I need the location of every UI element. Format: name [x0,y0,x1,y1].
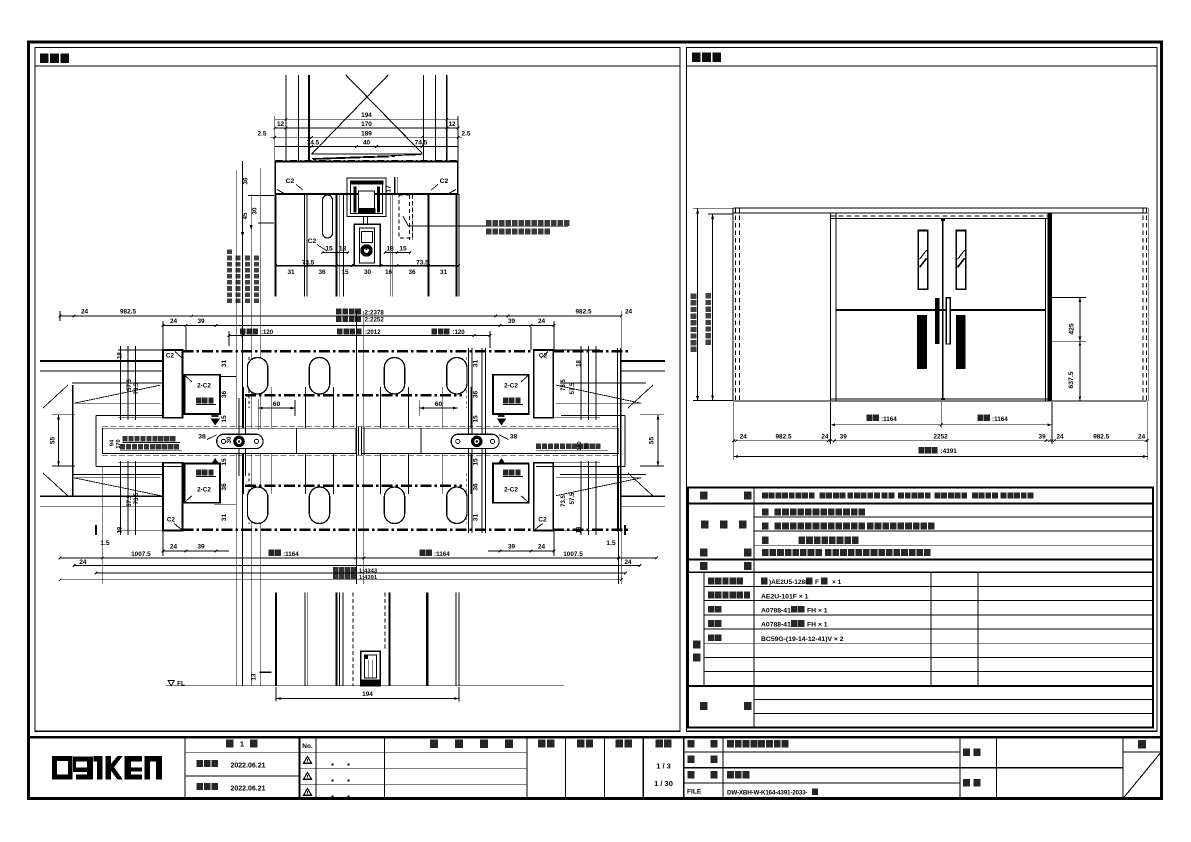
svg-text:18: 18 [576,526,582,533]
left pane frame [35,48,680,732]
rotated height labels 2033/1952/1954 [227,250,259,303]
svg-text:17: 17 [386,185,393,193]
55 dims vertical [50,415,665,466]
roller hanger bracket verticals [244,387,471,494]
finish rows text [762,508,935,544]
svg-text:38: 38 [510,434,518,441]
front left height dims [691,208,734,401]
extra cut verticals left [239,398,246,476]
svg-text:36: 36 [221,391,228,399]
svg-text:AE2U-101F × 1: AE2U-101F × 1 [761,593,809,600]
svg-text:73.5: 73.5 [561,379,567,391]
svg-text:C2: C2 [440,178,449,185]
svg-text:73.5: 73.5 [561,495,567,507]
svg-text:57.5: 57.5 [127,379,133,391]
right glass slit [956,230,966,289]
spec row labels [693,492,751,711]
svg-text:36: 36 [408,269,416,276]
svg-text:1:4343: 1:4343 [359,568,378,574]
svg-text:A0788-41: A0788-41 [761,622,791,629]
svg-text:FH × 1: FH × 1 [807,622,828,629]
svg-text:40: 40 [363,140,371,147]
plan top dim row1 24-982.5-2378 [59,308,633,584]
wall end bars [73,348,621,532]
lower roller ovals [247,487,467,524]
upper roller ovals [247,358,467,395]
svg-text:39: 39 [197,544,205,551]
60 dims [258,399,457,430]
svg-text:24: 24 [1138,433,1146,440]
section cut markers A [211,410,507,426]
svg-text:FH × 1: FH × 1 [807,608,828,615]
front head band [734,208,1148,216]
front side panels dashed [733,208,1148,401]
spec table outer box [688,488,1153,728]
leaf spring lines [312,154,423,159]
right lock detail [451,434,499,448]
svg-text:18: 18 [118,526,124,533]
first edition header [226,740,257,749]
front total width 4391 [734,447,1148,458]
svg-text:24: 24 [740,433,748,440]
73.5 labels [302,259,429,266]
plan bottom dim 24 row [73,559,642,567]
No column header and warning triangles [302,743,313,796]
shim wedges [74,385,641,496]
DAIKEN logo [52,756,162,780]
front bottom dim row widths [732,402,1149,460]
svg-text:73.5: 73.5 [134,382,140,394]
approval headers shonin kakunin sakusei [538,740,632,748]
svg-text::120: :120 [453,329,466,336]
spec table sub row lines [704,517,1153,714]
left lock detail [217,434,263,448]
svg-text:45: 45 [242,212,249,219]
front floor line [734,400,1148,402]
svg-text:24: 24 [170,544,178,551]
svg-text:55: 55 [50,437,57,445]
38 labels [198,434,517,441]
svg-text:94: 94 [110,439,116,446]
svg-text:36: 36 [221,483,228,491]
svg-text:170: 170 [361,121,372,128]
kaitei date row [197,783,266,792]
svg-text:36: 36 [473,391,480,399]
svg-text:BC59G-(19-14-12-41)V × 2: BC59G-(19-14-12-41)V × 2 [761,636,844,643]
plan bottom dims 24-39 [100,531,616,556]
X cross brace [312,75,422,154]
svg-text:18: 18 [339,245,347,252]
svg-text:30: 30 [227,436,233,443]
heavy dash-dot track lines [163,351,631,530]
svg-text::1164: :1164 [992,416,1008,423]
svg-text:24: 24 [821,433,829,440]
title block row lines [185,752,1162,784]
C2 label lower-left [308,238,327,251]
plan bottom dims 1007.5 tobira1164 [59,467,658,584]
svg-text:1: 1 [240,740,244,749]
svg-text:No.: No. [302,743,313,750]
svg-text:15: 15 [221,415,228,423]
frame jamb boxes C2 [163,350,553,531]
svg-text:36: 36 [318,269,326,276]
svg-text:15: 15 [221,458,228,466]
spec table column lines [704,488,978,728]
title block outer box [29,737,1162,798]
svg-text:2252: 2252 [933,433,948,440]
13 dim [250,672,271,680]
svg-text:2-C2: 2-C2 [504,383,518,390]
svg-text:15: 15 [473,458,480,466]
wall break marks [43,385,653,496]
194 dim bottom [276,687,459,702]
head dimension lines 194/170/189/74.5-40-74.5 [258,112,471,161]
svg-text:2.5: 2.5 [258,130,267,137]
17 dim at hanger [386,177,398,194]
revision history header [430,740,513,749]
door mid rail [836,309,1046,311]
svg-text:170: 170 [577,441,583,450]
left height dim chain 36/45/30 [236,161,274,686]
door meeting stile [941,219,945,401]
svg-text:39: 39 [1039,433,1047,440]
hanger roller mechanism [347,178,386,266]
name values [727,740,818,796]
svg-text:2022.06.21: 2022.06.21 [231,762,266,769]
door frame verticals [831,213,1053,401]
svg-text::1164: :1164 [283,551,299,558]
head beam box [275,161,458,194]
svg-text:1.5: 1.5 [606,540,616,547]
svg-text:425: 425 [1068,323,1075,335]
svg-text:30: 30 [364,269,372,276]
spec row1 text model description [762,492,1033,498]
svg-text:60: 60 [273,401,281,408]
meeting stile extension verticals [356,311,363,584]
svg-text:194: 194 [362,691,373,698]
floor section verticals [276,593,459,686]
svg-text:36: 36 [473,483,480,491]
left glass slit [918,230,928,289]
svg-text:A0788-41: A0788-41 [761,608,791,615]
rotated 31/36/15 dims left column [214,360,236,522]
plan bottom dim 4391 [59,573,623,581]
svg-text:60: 60 [435,401,443,408]
svg-text:2:2378: 2:2378 [365,309,385,316]
handle row text [762,549,931,556]
svg-text:15: 15 [341,269,349,276]
annotation leader and note text [408,220,570,235]
svg-text:94: 94 [584,442,590,449]
svg-text:31: 31 [221,514,228,522]
svg-text:2-C2: 2-C2 [504,487,518,494]
svg-text::120: :120 [261,329,274,336]
svg-text:1 / 3: 1 / 3 [656,762,671,771]
svg-text:39: 39 [197,318,205,325]
svg-text:170: 170 [116,439,122,448]
svg-text::2012: :2012 [365,329,381,336]
svg-text::4391: :4391 [941,448,958,455]
svg-text:13: 13 [250,673,257,681]
page cell [1123,740,1161,799]
door leaf band [102,427,619,456]
svg-text:982.5: 982.5 [1093,433,1109,440]
svg-text:16: 16 [385,269,393,276]
svg-text:× 1: × 1 [832,579,842,586]
svg-text:194: 194 [361,112,372,119]
svg-text:18: 18 [386,245,394,252]
plan top dim row3 hikake120 yuko2012 [228,328,492,348]
svg-text:FL: FL [177,681,185,688]
svg-text::1164: :1164 [881,416,897,423]
upper wall plan lines [40,361,665,383]
svg-text:2.5: 2.5 [462,130,471,137]
svg-text:637.5: 637.5 [1068,371,1075,388]
svg-text:74.5: 74.5 [307,140,320,147]
svg-text:39: 39 [508,544,516,551]
front-view title 正面図 [687,53,1158,67]
svg-text:1007.5: 1007.5 [131,551,151,558]
svg-text:36: 36 [243,177,250,184]
svg-text:31: 31 [221,360,228,368]
svg-text:30: 30 [251,207,258,214]
svg-text:24: 24 [538,544,546,551]
svg-text:C2: C2 [538,517,547,524]
front right dims 425 637.5 [1052,297,1086,401]
door width dims 1164 [831,415,1053,427]
svg-text:31: 31 [473,514,480,522]
handle bars [935,298,950,344]
svg-text:1 / 30: 1 / 30 [654,779,673,788]
svg-text:73.5: 73.5 [134,492,140,504]
svg-text:31: 31 [287,269,295,276]
scale header and values [654,740,673,789]
seitei date row [197,760,266,769]
author cells [963,749,980,787]
svg-text::1164: :1164 [434,551,450,558]
svg-text:F: F [815,579,819,586]
name rows labels [687,740,717,796]
svg-text:31: 31 [440,269,448,276]
svg-text:57.5: 57.5 [570,492,576,504]
svg-text:18: 18 [576,360,582,367]
head section bottom dim row 31-36-15-30-16-36-31 [274,264,459,276]
svg-text:FILE: FILE [687,789,702,796]
svg-text:2-C2: 2-C2 [197,383,211,390]
svg-text:DW-XBH-W-K164-4391-2033-: DW-XBH-W-K164-4391-2033- [727,789,807,796]
long section cut verticals right [469,348,486,533]
svg-text:2:2252: 2:2252 [365,317,385,324]
left pocket box [96,416,185,467]
svg-text:C2: C2 [286,178,295,185]
svg-text:24: 24 [624,559,632,566]
15-18 sub dims [321,245,411,253]
svg-text:C2: C2 [166,353,175,360]
svg-text:24: 24 [79,559,87,566]
svg-text:15: 15 [325,245,333,252]
svg-text:24: 24 [81,309,89,316]
title block column lines [185,737,1123,798]
section-view title 断面図 [35,54,680,67]
kick plates [917,315,965,369]
svg-text:12: 12 [277,121,285,128]
svg-text:982.5: 982.5 [776,433,792,440]
svg-text:1.5: 1.5 [100,540,110,547]
svg-text:189: 189 [361,130,372,137]
svg-text:2-C2: 2-C2 [197,487,211,494]
right dashed pocket [399,195,413,238]
lower wall plan lines [40,474,665,506]
door top and bottom lines [831,219,1053,399]
plan bottom dim 4343 [95,567,627,575]
svg-text:74.5: 74.5 [415,140,428,147]
svg-text:C2: C2 [308,238,317,245]
floor guide detail [361,651,381,686]
rotated 31/36/15 dims right column [473,360,480,522]
guide dashed verticals [249,357,466,524]
svg-text:39: 39 [840,433,848,440]
right pocket box [536,416,625,467]
svg-text:31: 31 [473,360,480,368]
svg-text:24: 24 [625,309,633,316]
revision row dots [332,764,350,798]
svg-text:57.5: 57.5 [127,495,133,507]
section cut markers V [211,458,507,474]
svg-text:38: 38 [198,434,206,441]
svg-text:39: 39 [508,318,516,325]
parts rows [708,578,844,643]
svg-text:1:4391: 1:4391 [359,575,378,581]
head section vertical rails [286,75,447,161]
head section verticals below beam [276,194,459,297]
spec table major row lines [688,504,1153,686]
FL line and marker [166,680,564,687]
jamb offset dim chains left [118,346,163,535]
svg-text:24: 24 [1056,433,1064,440]
svg-text:1007.5: 1007.5 [563,551,583,558]
jamb offset dim chains right [553,346,600,535]
inner frame boxes 2-C2 [184,375,528,503]
plan top dim row2 24-39-2252 [162,316,556,350]
C2 labels on beam [286,178,449,190]
svg-text:15: 15 [473,415,480,423]
svg-text:)AE2U5-1288: )AE2U5-1288 [769,579,809,586]
svg-text:C2: C2 [167,517,176,524]
left roller pocket [323,195,333,238]
svg-text:982.5: 982.5 [120,309,136,316]
svg-text:12: 12 [448,121,456,128]
svg-text:24: 24 [170,318,178,325]
svg-text:15: 15 [399,245,407,252]
svg-text:55: 55 [649,437,656,445]
svg-text:18: 18 [118,352,124,359]
svg-text:2022.06.21: 2022.06.21 [231,785,266,792]
svg-text:24: 24 [538,318,546,325]
right pane frame [687,48,1158,732]
svg-text:982.5: 982.5 [576,309,592,316]
